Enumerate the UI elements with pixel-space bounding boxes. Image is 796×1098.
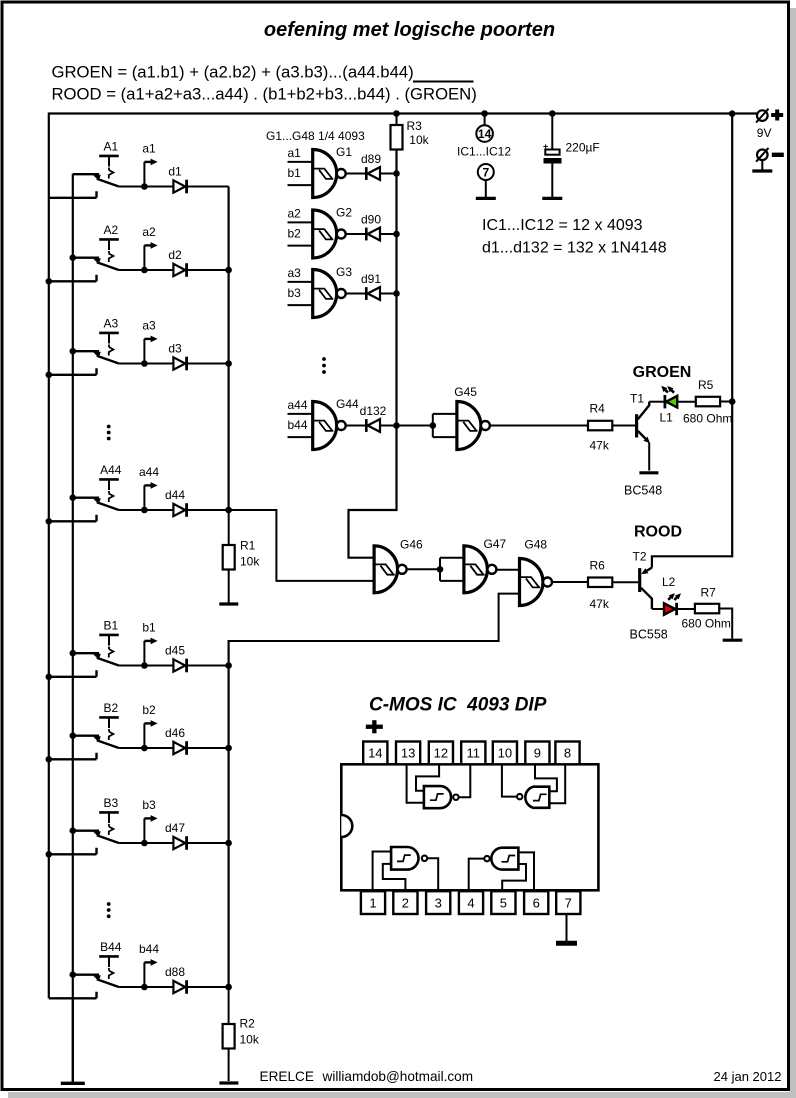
wire A1 row <box>119 186 229 188</box>
svg-text:+: + <box>543 141 548 151</box>
inner nand gate D (pins 4,5,6) <box>491 848 518 870</box>
svg-text:a3: a3 <box>142 319 156 333</box>
pin 3 <box>426 891 450 914</box>
svg-text:IC1...IC12 = 12 x 4093: IC1...IC12 = 12 x 4093 <box>482 217 643 234</box>
svg-text:B44: B44 <box>100 940 122 954</box>
svg-text:R6: R6 <box>590 559 606 573</box>
wire right +9V bus <box>652 114 732 568</box>
wire T2 collector to L2 <box>652 608 664 610</box>
svg-text:R5: R5 <box>698 378 714 392</box>
junction A3 diode bus <box>225 360 232 367</box>
node a1 (tap with arrow) <box>143 162 145 187</box>
junction d90 bus <box>393 231 400 238</box>
switch B2 (pushbutton) <box>99 716 119 719</box>
wire B diode bus <box>228 640 230 987</box>
ellipsis dots gate column <box>322 357 326 361</box>
switch A2 (pushbutton) <box>99 238 119 241</box>
svg-text:ROOD: ROOD <box>634 524 682 541</box>
label + (DIP supply) <box>366 725 383 729</box>
svg-text:d46: d46 <box>165 726 185 740</box>
wire pin 12 to gate A input <box>416 764 439 790</box>
svg-text:B3: B3 <box>103 796 118 810</box>
switch A44 (pushbutton) <box>99 478 119 481</box>
junction R3 top rail <box>393 110 400 117</box>
svg-text:220µF: 220µF <box>566 141 600 155</box>
nand gate G46 <box>374 546 397 593</box>
pin 14 <box>363 742 387 765</box>
svg-text:d89: d89 <box>361 152 381 166</box>
ellipsis dots left column B <box>107 902 111 906</box>
inner nand gate C (pins 1,2,3) <box>391 847 418 870</box>
pin 12 <box>429 742 453 765</box>
svg-text:24 jan 2012: 24 jan 2012 <box>714 1069 782 1084</box>
inner nand gate A (pins 12,13,11) <box>424 786 451 808</box>
svg-text:G3: G3 <box>336 265 352 279</box>
wire R5 to +9V bus <box>720 401 732 403</box>
nand gate G47 (inverter) <box>440 558 464 581</box>
svg-text:a1: a1 <box>142 142 156 156</box>
pin 7 <box>556 891 580 914</box>
diode d90 <box>346 233 367 235</box>
svg-text:a44: a44 <box>139 465 159 479</box>
nand gate G1 <box>288 161 313 163</box>
resistor R1 <box>228 510 230 545</box>
svg-text:R7: R7 <box>701 585 717 599</box>
junction dots row B3 <box>70 827 77 834</box>
ground (after R7) <box>723 639 743 642</box>
svg-text:T1: T1 <box>630 392 644 406</box>
junction d91 bus <box>393 290 400 297</box>
wire B1 row <box>119 665 229 667</box>
diode d47 <box>173 837 185 849</box>
svg-text:R4: R4 <box>590 402 606 416</box>
pin 7 ground circle <box>478 164 494 180</box>
junction B1 diode bus <box>225 662 232 669</box>
wire A44 row <box>119 509 229 511</box>
svg-text:L1: L1 <box>660 411 674 425</box>
nand gate G45 (inverter) <box>433 414 457 437</box>
svg-text:4: 4 <box>467 895 474 910</box>
led L1 green <box>664 395 667 408</box>
wire left bus 1 (switch common) <box>48 113 50 999</box>
pin 11 <box>461 742 485 765</box>
junction dots row B2 <box>70 732 77 739</box>
ground (bottom of bus 2) <box>72 998 74 1082</box>
svg-text:14: 14 <box>478 127 492 141</box>
pin 6 <box>524 891 548 914</box>
svg-text:d45: d45 <box>165 644 185 658</box>
svg-text:G44: G44 <box>336 397 359 411</box>
ellipsis dots left column A <box>107 425 111 429</box>
diode d89 <box>346 173 367 175</box>
inner nand gate B (pins 8,9,10) <box>525 787 549 808</box>
svg-text:a3: a3 <box>288 266 302 280</box>
wire gate C out to pin 3 <box>427 858 438 891</box>
diode d1 <box>173 180 185 192</box>
svg-text:b44: b44 <box>288 418 308 432</box>
ground (pin 7 circle) <box>476 197 496 200</box>
svg-text:d90: d90 <box>361 213 381 227</box>
light arrows L2 <box>668 596 672 600</box>
wire G48 out to R6 <box>552 581 589 583</box>
svg-text:A3: A3 <box>103 317 118 331</box>
wire B-node to G48 lower input <box>229 594 520 641</box>
pin 14 supply circle <box>484 114 486 126</box>
svg-text:b1: b1 <box>288 166 302 180</box>
node a44 (tap with arrow) <box>143 485 145 510</box>
svg-text:GROEN = (a1.b1) + (a2.b2) + (a: GROEN = (a1.b1) + (a2.b2) + (a3.b3)...(a… <box>52 63 414 82</box>
diode d132 <box>346 425 367 427</box>
terminal 0V <box>757 150 768 161</box>
svg-text:2: 2 <box>402 895 409 910</box>
svg-text:a2: a2 <box>142 225 156 239</box>
svg-text:9: 9 <box>534 746 541 761</box>
svg-text:IC1...IC12: IC1...IC12 <box>457 145 511 159</box>
ground (below R1) <box>219 602 238 605</box>
diode d91 <box>346 293 367 295</box>
resistor R3 <box>396 114 398 126</box>
junction B2 diode bus <box>225 745 232 752</box>
junction dots row A44 <box>70 494 77 501</box>
diode d3 <box>173 357 185 369</box>
wire R4 to T1 base <box>612 425 635 427</box>
wire left bus 2 (switch common) <box>72 174 74 1082</box>
junction B44 diode bus <box>225 984 232 991</box>
svg-text:680 Ohm: 680 Ohm <box>683 411 732 425</box>
wire T1 collector to L1 <box>649 401 664 403</box>
svg-text:b2: b2 <box>142 703 156 717</box>
svg-text:d1: d1 <box>168 165 182 179</box>
svg-text:T2: T2 <box>633 550 647 564</box>
svg-text:7: 7 <box>482 165 489 179</box>
svg-text:ROOD = (a1+a2+a3...a44) . (b1+: ROOD = (a1+a2+a3...a44) . (b1+b2+b3...b4… <box>52 85 477 104</box>
wire B44 row <box>119 986 229 988</box>
svg-text:R3: R3 <box>407 119 423 133</box>
wire +9V top rail <box>49 112 757 114</box>
light arrows L1 <box>664 388 668 392</box>
wire R7 to ground <box>719 609 732 639</box>
junction A2 diode bus <box>225 267 232 274</box>
nand gate G48 <box>520 559 544 606</box>
ground (below capacitor) <box>542 197 562 200</box>
wire A-node to G46 lower input <box>229 510 375 581</box>
switch A3 (pushbutton) <box>99 332 119 335</box>
wire GROEN diode bus <box>349 150 397 558</box>
diode d45 <box>173 659 185 671</box>
switch A1 (pushbutton) <box>99 155 119 158</box>
svg-text:b3: b3 <box>142 798 156 812</box>
svg-text:13: 13 <box>401 746 415 761</box>
pin 13 <box>396 742 420 765</box>
svg-text:9V: 9V <box>757 126 772 140</box>
wire pin 6 to gate D input <box>518 852 534 891</box>
led L2 red <box>664 603 675 615</box>
ground (T1 emitter) <box>639 471 658 474</box>
wire L1 to R5 <box>677 401 696 403</box>
junction d132 bus <box>393 422 400 429</box>
junction dots row B1 <box>70 650 77 657</box>
svg-text:G2: G2 <box>336 206 352 220</box>
svg-text:BC548: BC548 <box>624 484 662 498</box>
svg-text:R1: R1 <box>240 539 256 553</box>
svg-text:680 Ohm: 680 Ohm <box>682 616 731 630</box>
svg-text:A1: A1 <box>103 140 118 154</box>
svg-text:47k: 47k <box>590 439 610 453</box>
wire G45 out to R4 <box>490 425 588 427</box>
nand gate G44 <box>288 413 313 415</box>
svg-text:oefening met logische poorten: oefening met logische poorten <box>264 19 555 41</box>
pin 10 <box>493 742 517 765</box>
transistor T1 BC548 <box>635 414 638 437</box>
svg-text:11: 11 <box>467 746 481 761</box>
junction A44 diode bus <box>225 507 232 514</box>
svg-text:C-MOS IC 4093 DIP: C-MOS IC 4093 DIP <box>369 695 547 716</box>
svg-text:d44: d44 <box>165 488 185 502</box>
wire R6 to T2 base <box>613 581 638 583</box>
wire d132 to G45 <box>380 425 433 427</box>
svg-text:1: 1 <box>369 895 376 910</box>
node b2 (tap with arrow) <box>143 723 145 748</box>
svg-text:BC558: BC558 <box>630 628 668 642</box>
svg-text:williamdob@hotmail.com: williamdob@hotmail.com <box>322 1069 474 1084</box>
svg-text:ERELCE: ERELCE <box>260 1069 314 1084</box>
svg-text:B2: B2 <box>103 701 118 715</box>
svg-text:A2: A2 <box>103 223 118 237</box>
svg-text:b1: b1 <box>142 621 156 635</box>
junction dots row A2 <box>70 254 77 261</box>
svg-text:d1...d132 = 132 x 1N4148: d1...d132 = 132 x 1N4148 <box>482 240 667 257</box>
transistor T2 BC558 (PNP) <box>638 568 641 592</box>
diode d44 <box>173 504 185 516</box>
svg-text:5: 5 <box>500 895 507 910</box>
svg-text:G1: G1 <box>336 145 352 159</box>
node a3 (tap with arrow) <box>143 339 145 364</box>
wire A diode bus <box>228 187 230 511</box>
IC body DIP-14 <box>341 764 598 890</box>
svg-text:G46: G46 <box>400 538 423 552</box>
node a2 (tap with arrow) <box>143 245 145 270</box>
diode d88 <box>173 981 185 993</box>
wire gate A out to pin 11 <box>459 764 471 797</box>
svg-text:B1: B1 <box>103 619 118 633</box>
pin 4 <box>459 891 483 914</box>
svg-text:b3: b3 <box>288 286 302 300</box>
svg-text:a1: a1 <box>288 146 302 160</box>
capacitor C1 220uF <box>551 114 553 150</box>
svg-text:3: 3 <box>435 895 442 910</box>
switch B1 (pushbutton) <box>99 634 119 637</box>
svg-text:d47: d47 <box>165 821 185 835</box>
svg-text:14: 14 <box>368 746 382 761</box>
svg-text:47k: 47k <box>590 597 610 611</box>
svg-text:GROEN: GROEN <box>633 364 692 381</box>
ground (below R2) <box>219 1081 238 1084</box>
wire pin 13 to gate A input <box>407 764 424 802</box>
svg-text:d132: d132 <box>360 404 387 418</box>
resistor R7 680 Ohm <box>695 604 719 614</box>
resistor R4 47k <box>588 421 612 431</box>
svg-text:R2: R2 <box>240 1017 256 1031</box>
wire B2 row <box>119 747 229 749</box>
pin 5 <box>491 891 515 914</box>
svg-text:L2: L2 <box>662 575 676 589</box>
svg-text:d3: d3 <box>168 342 182 356</box>
wire pin 1 to gate C input <box>373 852 392 892</box>
wire B3 row <box>119 842 229 844</box>
svg-text:G1...G48 1/4 4093: G1...G48 1/4 4093 <box>266 129 365 143</box>
nand gate G3 <box>288 281 313 283</box>
wire A2 row <box>119 269 229 271</box>
resistor R2 <box>228 987 230 1024</box>
junction top rail right bus <box>729 110 736 117</box>
ground (pin 7) <box>566 914 568 941</box>
wire A3 row <box>119 363 229 365</box>
junction dots row A3 <box>70 348 77 355</box>
node b1 (tap with arrow) <box>143 641 145 666</box>
node b44 (tap with arrow) <box>143 962 145 987</box>
svg-text:10: 10 <box>498 746 512 761</box>
junction B3 diode bus <box>225 840 232 847</box>
wire pin 8 to gate B input <box>549 764 565 803</box>
svg-text:10k: 10k <box>240 1033 260 1047</box>
svg-text:10k: 10k <box>240 555 260 569</box>
pin 8 <box>555 742 579 765</box>
svg-text:8: 8 <box>564 746 571 761</box>
svg-text:G47: G47 <box>484 537 507 551</box>
pin 1 <box>361 891 385 914</box>
pin 2 <box>393 891 417 914</box>
wire pin 4 to gate D output <box>469 859 485 892</box>
wire G46 out to G47 <box>407 568 440 570</box>
ground (0V terminal) <box>761 160 763 170</box>
svg-text:A44: A44 <box>100 463 122 477</box>
svg-text:d88: d88 <box>165 965 185 979</box>
svg-text:6: 6 <box>533 895 540 910</box>
svg-text:12: 12 <box>434 746 448 761</box>
notch <box>341 815 352 837</box>
svg-text:b2: b2 <box>288 227 302 241</box>
wire pin 2 to gate C input <box>383 864 406 891</box>
diode d46 <box>173 742 185 754</box>
pin 9 <box>525 742 549 765</box>
wire pin 10 to gate B output <box>502 764 517 796</box>
overline over GROEN <box>413 81 474 83</box>
node b3 (tap with arrow) <box>143 818 145 843</box>
svg-text:a44: a44 <box>288 398 308 412</box>
junction d89 bus <box>393 170 400 177</box>
svg-text:d91: d91 <box>361 272 381 286</box>
wire pin 9 to gate B input <box>535 764 557 791</box>
diode d2 <box>173 264 185 276</box>
resistor R6 47k <box>588 578 612 588</box>
svg-text:G48: G48 <box>524 538 547 552</box>
terminal +9V <box>757 110 768 121</box>
nand gate G2 <box>288 221 313 223</box>
svg-text:a2: a2 <box>288 207 302 221</box>
wire L2 to R7 <box>678 608 695 610</box>
svg-text:7: 7 <box>565 895 572 910</box>
resistor R5 680 Ohm <box>696 397 720 407</box>
switch B44 (pushbutton) <box>99 955 119 958</box>
wire G47 out to G48 <box>496 569 520 571</box>
junction dots row B44 <box>70 971 77 978</box>
switch B3 (pushbutton) <box>99 811 119 814</box>
svg-text:G45: G45 <box>454 385 477 399</box>
svg-text:b44: b44 <box>139 942 159 956</box>
svg-text:d2: d2 <box>168 248 182 262</box>
svg-text:10k: 10k <box>409 133 429 147</box>
wire pin 5 to gate D input <box>502 864 526 891</box>
